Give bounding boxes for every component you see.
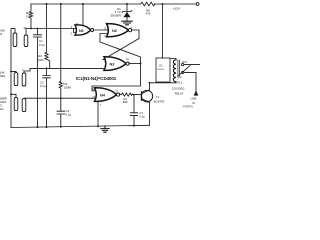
wire sense node h2 (30, 67, 107, 69)
capacitor C2 (43, 68, 51, 127)
wire N/O output (184, 64, 200, 66)
svg-text:+12V: +12V (173, 6, 181, 10)
node junction probe pair3 (10, 93, 12, 95)
svg-text:68K: 68K (123, 100, 128, 104)
svg-text:N/O: N/O (182, 60, 187, 64)
wire N4 output (120, 94, 122, 96)
svg-text:N/C: N/C (177, 75, 182, 79)
svg-text:N2: N2 (112, 29, 117, 33)
svg-text:0.1µ: 0.1µ (39, 43, 45, 47)
op-amp gate N2 (107, 24, 132, 37)
resistor R4 (122, 93, 133, 96)
op-amp gate N3 (104, 57, 129, 71)
wire N2 lower input (100, 34, 111, 43)
svg-text:WEL: WEL (0, 74, 6, 78)
wire N1 input stubs (74, 29, 80, 33)
node rail junction D1 (126, 3, 128, 5)
svg-text:10M: 10M (38, 58, 44, 62)
node rail junction R2 (46, 3, 48, 5)
relay pole arm (179, 66, 190, 76)
wire sense node 1 (26, 28, 74, 30)
ground symbol main (101, 126, 109, 132)
wire N4 lower input stub (98, 97, 102, 99)
wire probe pair3 left lead (11, 94, 16, 97)
node junction C4 ground (133, 125, 135, 127)
node junction C1/node1 (37, 28, 39, 30)
svg-text:IN: IN (192, 101, 195, 105)
node junction C4 tap (133, 94, 135, 96)
electrode probe P1b (24, 35, 28, 47)
op-amp gate N1 (75, 25, 94, 35)
svg-text:100M: 100M (64, 85, 72, 89)
arrow emitter T1 (146, 100, 149, 102)
capacitor C3 (57, 98, 65, 127)
op-amp gate N4 (95, 88, 120, 102)
resistor R1 (29, 4, 32, 29)
electrode probe P3b (22, 99, 26, 112)
svg-text:RELAY: RELAY (175, 92, 184, 96)
electrode probe P3a (14, 98, 18, 111)
electrode probe P2a (14, 73, 18, 86)
wire probe M lead (25, 29, 27, 36)
svg-text:IC1(N1-N4)=CD4001: IC1(N1-N4)=CD4001 (76, 76, 117, 81)
wire relay bottom to collector (150, 82, 177, 84)
electrode probe P2b (22, 73, 26, 86)
capacitor C1 (34, 29, 42, 128)
relay core lines (178, 60, 180, 76)
svg-text:BC547B: BC547B (154, 100, 165, 104)
node rail junction pin14 (82, 3, 84, 5)
wire N3 output (129, 63, 141, 65)
resistor R2 (45, 4, 50, 68)
zener diode D1 (122, 5, 132, 21)
arrow live line (194, 90, 199, 96)
svg-text:470: 470 (146, 12, 151, 16)
electrode probe P1a (13, 33, 17, 47)
node junction R3/h3 (60, 97, 62, 99)
ground symbol D1 (122, 21, 132, 25)
svg-text:1M: 1M (26, 15, 31, 19)
wire N4 pin7 ground (97, 101, 99, 126)
diode D2 box (156, 58, 170, 82)
wire ground bottom rail (11, 125, 150, 127)
wire cross-coupling N3 to N2 (100, 42, 141, 64)
svg-text:ES: ES (0, 107, 4, 111)
node junction R2/h2 (46, 68, 48, 70)
wire N/C to live (184, 72, 196, 90)
svg-text:1N4001: 1N4001 (157, 69, 165, 71)
node junction pin7 ground (97, 125, 99, 127)
node rail junction R3 (60, 3, 62, 5)
node junction R1/node1 (30, 28, 32, 30)
wire probe pair2 left lead (11, 71, 16, 72)
svg-text:FOR PU: FOR PU (183, 104, 193, 108)
node junction collector (149, 82, 151, 84)
capacitor C4 (130, 95, 137, 126)
wire relay supply drop (162, 4, 164, 58)
wire probe L lead (24, 68, 30, 73)
wire +12V top rail (31, 3, 196, 5)
svg-text:0.1µ: 0.1µ (40, 84, 46, 88)
wire N1 output to N2 (94, 29, 111, 31)
relay contact N/C terminal (182, 71, 184, 73)
resistor R3 (59, 4, 62, 98)
node junction C3 ground (60, 126, 62, 128)
transistor T1 (141, 90, 152, 101)
node junction probe pair2 (10, 71, 12, 73)
svg-text:N3: N3 (110, 63, 115, 67)
wire N3 output to N4 input (92, 64, 141, 91)
svg-text:0.1µ: 0.1µ (66, 113, 72, 117)
resistor R5 (141, 2, 156, 6)
relay contact N/O terminal (182, 63, 184, 65)
svg-text:12V/200Ω: 12V/200Ω (172, 87, 185, 91)
svg-text:LINE: LINE (191, 96, 197, 100)
wire N1 pin14 supply (82, 4, 84, 25)
svg-text:ZENER: ZENER (111, 14, 122, 18)
node junction C1 ground (37, 126, 39, 128)
svg-text:D2: D2 (159, 64, 163, 68)
wire sense node h3 (24, 97, 101, 99)
svg-text:RL1: RL1 (177, 80, 183, 84)
terminal +12V (196, 3, 199, 6)
wire N2 output feedback (103, 30, 139, 60)
wire probe common line (11, 29, 15, 128)
node rail junction relay (162, 3, 164, 5)
node junction C2 ground (46, 126, 48, 128)
relay coil RL1 (170, 58, 176, 82)
svg-text:T1: T1 (156, 95, 160, 99)
node junction N3 output (140, 63, 142, 65)
wire R4 to base (133, 94, 142, 96)
svg-text:0.1µ: 0.1µ (139, 114, 145, 118)
svg-text:N1: N1 (79, 29, 84, 33)
